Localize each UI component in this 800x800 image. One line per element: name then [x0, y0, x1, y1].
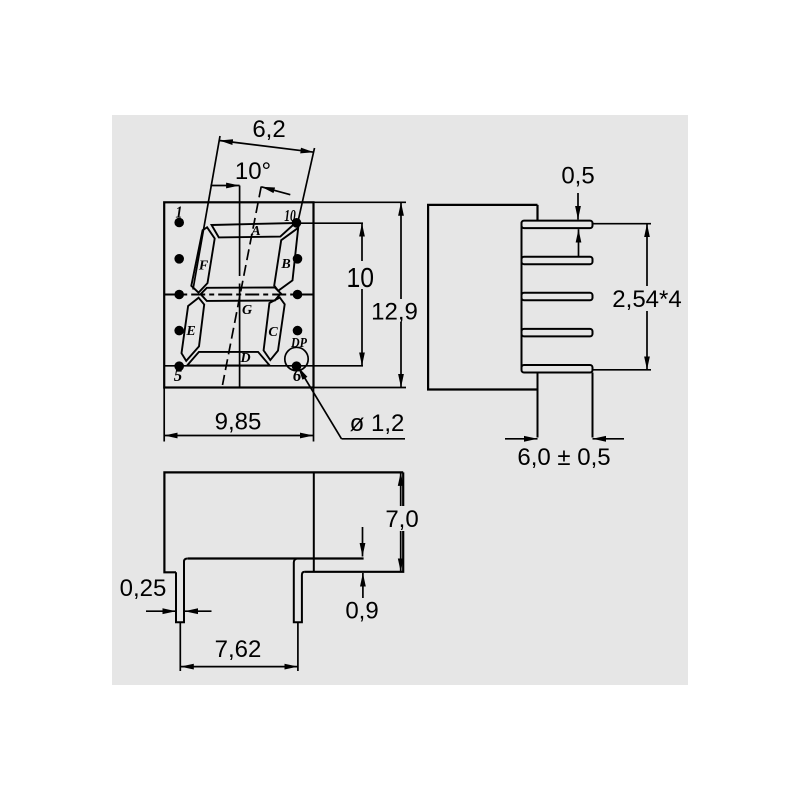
dimension text 12,9 mask	[370, 299, 420, 322]
dimension 9,85 line	[164, 435, 313, 437]
side pin 3	[522, 293, 593, 301]
svg-text:1: 1	[176, 203, 183, 222]
top pin row extension line (pin 10)	[294, 222, 363, 224]
dimension 12,9 top extension	[314, 201, 407, 203]
DP leader horizontal	[342, 438, 406, 440]
dimension 9,85 left extension	[163, 388, 165, 442]
dimension text 10 mask	[346, 261, 376, 289]
svg-text:7,0: 7,0	[385, 506, 418, 533]
segment B	[274, 228, 298, 291]
pin dot 7	[293, 326, 303, 336]
side view pin header bar	[521, 224, 523, 369]
7-segment digit	[182, 223, 299, 365]
front view body outline	[164, 202, 313, 387]
svg-text:7,62: 7,62	[215, 636, 262, 663]
pin dot 5	[174, 361, 184, 371]
decimal point circle DP	[285, 347, 308, 370]
dimension 7,62 line	[180, 666, 298, 668]
pin dot 8	[293, 290, 303, 300]
side leg left edge	[537, 373, 539, 438]
svg-text:DP: DP	[290, 336, 307, 351]
pin dot 3	[174, 290, 184, 300]
svg-text:9,85: 9,85	[215, 409, 262, 436]
0,9 up arrow	[362, 573, 364, 598]
0,9 down arrow	[362, 527, 364, 557]
bottom view body outline	[164, 472, 403, 572]
0,25 left arrow	[146, 610, 176, 612]
svg-text:G: G	[242, 303, 252, 318]
bottom view interior line	[313, 472, 315, 571]
side pin 4	[522, 329, 593, 337]
dimension 12,9 bottom extension	[314, 387, 407, 389]
segment G	[201, 288, 281, 301]
6,0 dimension left arrow	[505, 438, 538, 440]
0,5 up arrow	[578, 229, 580, 256]
svg-text:2,54*4: 2,54*4	[612, 286, 681, 313]
svg-text:12,9: 12,9	[371, 298, 418, 325]
horizontal center line (dashed) through G	[164, 294, 313, 296]
svg-text:0,25: 0,25	[120, 575, 167, 602]
pin dot 1	[174, 218, 184, 228]
dimension 12,9 line	[400, 202, 402, 387]
dimension 2,54 bottom extension	[593, 369, 652, 371]
svg-text:10: 10	[347, 262, 375, 293]
side pin 1	[522, 221, 593, 229]
svg-text:E: E	[185, 324, 195, 339]
tilted 10-degree center line (dashed)	[223, 187, 262, 386]
side view body outline	[428, 205, 538, 390]
segment E	[182, 298, 205, 361]
dimension 7,62 left extension	[179, 623, 181, 671]
side leg right edge	[592, 373, 594, 438]
pin dot 6	[292, 361, 302, 371]
6,0 dimension right arrow	[593, 438, 625, 440]
bottom pin row line (pins 5,6)	[164, 365, 363, 367]
side pin 5 bottom piece	[522, 365, 593, 373]
side pin 2	[522, 257, 593, 265]
segment A	[212, 223, 296, 237]
pin dot 9	[293, 254, 303, 264]
svg-text:6,0 ± 0,5: 6,0 ± 0,5	[517, 444, 610, 471]
svg-text:B: B	[280, 257, 290, 272]
DP leader arrow	[298, 367, 342, 439]
dimension text 2,54*4 mask	[609, 286, 685, 311]
pin dot 4	[174, 326, 184, 336]
svg-text:D: D	[239, 351, 250, 366]
dimension text 7,0 mask	[383, 506, 421, 531]
10 deg left arrow	[210, 185, 239, 187]
dimension 2,54*4 line	[646, 224, 648, 370]
svg-text:6,2: 6,2	[252, 116, 285, 143]
0,25 right arrow	[185, 610, 212, 612]
svg-text:C: C	[268, 325, 278, 340]
pin dot 2	[174, 254, 184, 264]
svg-text:10°: 10°	[235, 158, 271, 185]
dimension 10 line	[361, 223, 363, 366]
svg-text:0,5: 0,5	[561, 163, 594, 190]
dimension 9,85 right extension	[313, 388, 315, 442]
pin dot 10	[292, 218, 302, 228]
dimension 7,62 right extension	[297, 623, 299, 671]
svg-text:A: A	[250, 224, 260, 239]
svg-text:F: F	[198, 259, 209, 274]
dimension 6,2 left extension	[193, 136, 220, 290]
dimension 6,2 line	[219, 141, 314, 153]
svg-text:5: 5	[174, 366, 183, 385]
svg-text:0,9: 0,9	[345, 598, 378, 625]
bottom view pin 2	[294, 559, 305, 623]
segment F	[191, 227, 214, 292]
dimension 7,0 line	[400, 472, 402, 571]
segment D	[187, 352, 269, 366]
bottom view pin 1	[176, 559, 188, 623]
dimension 6,2 right extension	[297, 148, 314, 225]
svg-text:6: 6	[293, 366, 302, 385]
10 deg right arrow	[261, 187, 290, 195]
segment C	[264, 298, 285, 361]
dimension 2,54 top extension	[593, 223, 652, 225]
vertical center line	[239, 186, 241, 277]
svg-text:ø 1,2: ø 1,2	[350, 410, 405, 437]
0,5 down arrow	[577, 193, 579, 220]
